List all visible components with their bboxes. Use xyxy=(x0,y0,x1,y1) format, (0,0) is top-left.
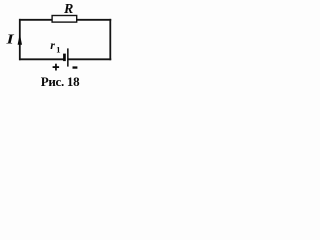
wire: top-left segment xyxy=(19,19,52,21)
minus sign xyxy=(73,66,78,68)
wire: top-right segment xyxy=(76,19,111,21)
battery: short thick plate (left) xyxy=(63,54,66,62)
wire: bottom-right segment xyxy=(68,58,111,60)
svg-text:r: r xyxy=(50,38,55,52)
svg-text:R: R xyxy=(63,2,73,17)
svg-text:Рис. 18: Рис. 18 xyxy=(41,74,80,89)
battery: long thin plate (right) xyxy=(67,48,69,66)
wire: left vertical xyxy=(19,19,21,60)
current arrow on left wire xyxy=(18,34,22,45)
wire: right vertical xyxy=(109,19,111,60)
resistor R (box) xyxy=(52,16,77,23)
wire: bottom-left segment xyxy=(19,58,64,60)
svg-text:1: 1 xyxy=(56,44,60,54)
svg-text:I: I xyxy=(5,31,14,47)
plus sign xyxy=(53,66,60,68)
background xyxy=(0,0,117,92)
